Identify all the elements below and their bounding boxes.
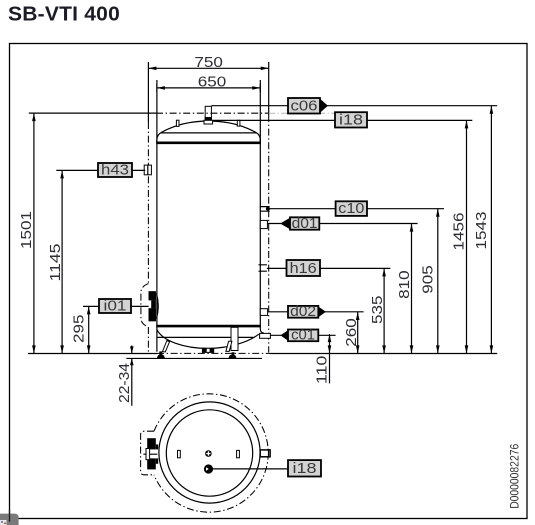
h16 nipple <box>259 265 267 271</box>
svg-text:d02: d02 <box>290 304 316 320</box>
floor line <box>126 357 262 359</box>
right foot stem <box>232 352 235 354</box>
svg-text:750: 750 <box>194 55 223 71</box>
ground reference line <box>28 353 497 355</box>
label c10 <box>336 201 367 216</box>
label i18 (bottom) <box>288 460 321 476</box>
label h43 <box>98 163 132 177</box>
wire h16 <box>267 267 390 269</box>
svg-text:D0000082276: D0000082276 <box>509 444 521 509</box>
left foot pad <box>157 354 165 358</box>
svg-text:h43: h43 <box>101 162 129 178</box>
svg-text:1456: 1456 <box>452 213 468 251</box>
svg-text:535: 535 <box>370 295 386 324</box>
insulation left bulge <box>141 431 154 475</box>
left foot stem <box>159 351 162 354</box>
bottom dome <box>157 330 259 349</box>
dimension 295 <box>88 306 90 353</box>
top weld seam (thick) <box>156 142 261 145</box>
top fitting flange <box>204 120 213 124</box>
wire d02 <box>268 311 364 313</box>
svg-text:c06: c06 <box>291 98 318 114</box>
top fitting black band <box>205 117 212 121</box>
dimension 260 <box>357 312 359 353</box>
dimension 1145 <box>61 170 63 353</box>
top view center mark <box>205 450 212 457</box>
tank wall extension lines (650) <box>156 80 158 143</box>
svg-text:i18: i18 <box>339 112 363 128</box>
c10 node dot <box>266 207 270 211</box>
dome nipple left <box>176 120 179 126</box>
label i01 <box>99 299 131 313</box>
wire i18 top <box>213 119 473 121</box>
right drain pipe <box>231 327 238 350</box>
svg-text:1501: 1501 <box>19 211 35 249</box>
svg-text:650: 650 <box>198 75 227 91</box>
tank outer circle <box>159 402 260 503</box>
dome nipple right <box>237 120 240 126</box>
svg-text:c10: c10 <box>338 201 364 217</box>
c10 nipple <box>260 207 270 212</box>
dimension 810 <box>411 224 413 354</box>
side flange black blocks <box>149 291 156 321</box>
wire i18 bottom <box>209 468 289 470</box>
wire c06 <box>211 105 497 107</box>
dimension 110 <box>329 334 331 383</box>
right foot pad <box>229 355 237 359</box>
corner overlay artifact <box>0 514 19 525</box>
top view tick right <box>237 450 240 457</box>
svg-text:d01: d01 <box>292 216 318 232</box>
insulation bottom edge line <box>157 336 254 338</box>
svg-text:i01: i01 <box>104 298 127 314</box>
wire h43 <box>56 169 145 171</box>
svg-text:110: 110 <box>315 356 331 385</box>
top view flange marks <box>146 449 150 460</box>
svg-text:295: 295 <box>72 314 88 343</box>
dimension 1501 <box>33 113 35 353</box>
dimension 1456 <box>466 120 468 353</box>
insulation outline right (dash-dot) <box>268 62 270 115</box>
top view flange blocks <box>147 438 156 449</box>
left leg <box>163 341 170 352</box>
label c01 <box>280 330 288 340</box>
svg-text:810: 810 <box>397 270 413 299</box>
label i18 (top) <box>335 112 367 127</box>
document number <box>509 444 521 509</box>
centerline dash-dot through fitting <box>156 112 269 114</box>
svg-text:22-34: 22-34 <box>117 363 133 403</box>
svg-text:1543: 1543 <box>474 212 490 250</box>
dimension 750 <box>148 67 268 69</box>
drain fitting <box>202 348 214 353</box>
c01 fitting <box>260 333 271 338</box>
flange bulge arc <box>157 294 159 319</box>
wire i01 <box>83 305 149 307</box>
top view right nozzle <box>260 450 270 457</box>
dimension 535 <box>383 268 385 353</box>
wire d01 <box>267 223 417 225</box>
insulation outline left (dash-dot) <box>147 62 149 122</box>
svg-text:1145: 1145 <box>48 244 64 282</box>
right leg <box>226 341 232 351</box>
h43 nipple <box>144 165 151 175</box>
svg-text:260: 260 <box>344 318 360 347</box>
svg-text:c01: c01 <box>291 328 315 344</box>
label d02 <box>288 306 318 318</box>
centerline solid part (1501 extension) <box>29 112 156 114</box>
dome tangent line <box>161 132 257 134</box>
wire c01 <box>270 334 335 336</box>
svg-text:905: 905 <box>421 265 437 294</box>
label c06 <box>288 98 320 114</box>
dimension 650 <box>157 87 260 89</box>
top view i18 port (black dot) <box>204 464 213 473</box>
label h16 <box>287 260 321 276</box>
svg-text:h16: h16 <box>290 261 317 277</box>
top fitting stem <box>205 106 211 117</box>
d01 nipple <box>260 220 267 228</box>
svg-text:i18: i18 <box>293 461 317 477</box>
svg-text:SB-VTI 400: SB-VTI 400 <box>8 3 120 26</box>
top view tick left <box>178 450 181 457</box>
wire c10 <box>268 208 444 210</box>
tank body walls <box>156 140 158 352</box>
label d01 <box>280 218 290 229</box>
dimension 905 <box>437 209 439 354</box>
dimension 22-34 <box>131 346 133 406</box>
bottom weld seam (thick) <box>156 325 261 328</box>
insulation circle (dash-dot, arc skipping bulge) <box>154 394 268 512</box>
d02 nipple <box>260 309 267 316</box>
tank top dome <box>157 121 260 142</box>
dimension 1543 <box>490 106 492 354</box>
tank inner circle <box>166 410 252 496</box>
